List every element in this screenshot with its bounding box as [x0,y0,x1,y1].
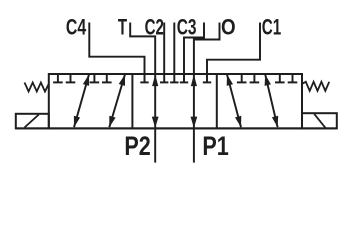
arrowhead P2 up [152,75,158,87]
valve main body box [49,74,302,128]
blocked port tick s8 [292,74,294,82]
blocked port tick s3 [93,74,95,82]
blocked port tick s2 [70,74,72,82]
right pilot solenoid box [302,113,337,128]
svg-text:P1: P1 [202,131,228,161]
svg-text:P2: P2 [124,131,150,161]
blocked port tick s6 [253,74,255,82]
wire C2 leader [163,23,165,83]
wire T leader to P2 line [130,23,155,163]
arrowhead P2 down [152,117,159,128]
wire O leader to P1 line [194,23,220,163]
left return spring [25,83,49,92]
left pilot solenoid box [16,114,49,129]
bottom rail [16,127,337,129]
wire C3 left leader [173,23,175,83]
flow arrow B2 [265,74,277,127]
position divider 1 [131,74,133,128]
blocked port C2 [160,81,168,83]
arrowhead P1 down [191,117,198,128]
wire C3 right elbow leader [184,23,204,83]
position divider 2 [216,74,218,128]
blocked port C3a [170,81,178,83]
wire C4 leader [89,23,144,83]
blocked port tick s4 [106,74,108,82]
blocked port C3b [180,81,188,83]
blocked port tick s5 [241,74,243,82]
svg-text:C2: C2 [145,15,164,40]
right solenoid slash [314,114,325,128]
wire C1 elbow leader [207,23,260,83]
flow arrow A2 [109,74,125,127]
blocked port tick s7 [279,74,281,82]
svg-text:C1: C1 [262,15,282,40]
right return spring [302,82,329,91]
flow arrow A1 [74,74,89,127]
svg-text:C3: C3 [177,15,197,40]
svg-text:O: O [221,15,236,40]
arrowhead P1 up [191,75,197,87]
flow arrow B1 [227,74,241,127]
left solenoid slash [25,115,39,128]
svg-text:C4: C4 [66,15,87,40]
blocked port C4 [140,81,148,83]
svg-text:T: T [118,15,127,40]
blocked port C1 [203,81,211,83]
blocked port tick s1 [57,74,59,82]
